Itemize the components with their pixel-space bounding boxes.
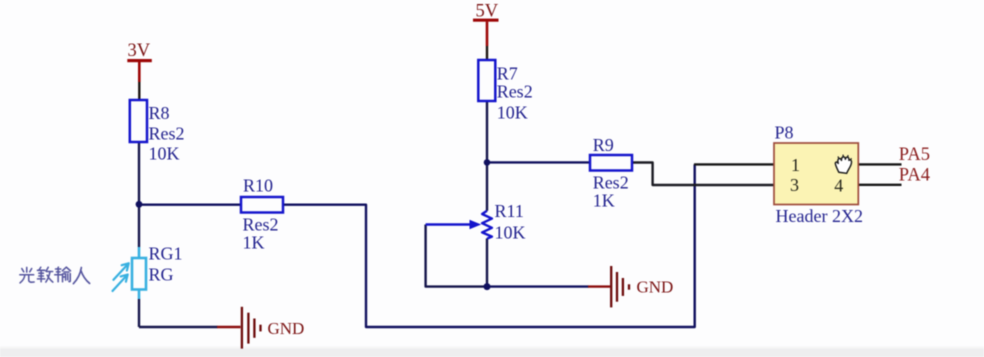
svg-text:1K: 1K	[593, 191, 615, 211]
svg-text:Res2: Res2	[497, 82, 533, 102]
svg-text:4: 4	[834, 176, 843, 196]
svg-text:P8: P8	[775, 123, 794, 143]
svg-text:R9: R9	[593, 135, 614, 155]
svg-text:R7: R7	[497, 64, 518, 84]
svg-text:RG: RG	[149, 265, 174, 285]
svg-text:R11: R11	[495, 201, 524, 221]
svg-text:10K: 10K	[495, 223, 526, 243]
svg-text:10K: 10K	[149, 144, 180, 164]
svg-text:1: 1	[791, 155, 800, 175]
svg-text:RG1: RG1	[149, 244, 183, 264]
svg-text:3: 3	[790, 175, 799, 195]
svg-text:3V: 3V	[128, 41, 151, 61]
svg-text:GND: GND	[637, 278, 674, 297]
svg-text:Header 2X2: Header 2X2	[776, 206, 863, 226]
svg-text:GND: GND	[268, 319, 305, 338]
svg-text:Res2: Res2	[593, 173, 629, 193]
svg-text:1K: 1K	[243, 233, 265, 253]
svg-text:R10: R10	[243, 176, 273, 196]
svg-text:PA5: PA5	[899, 145, 930, 165]
svg-text:R8: R8	[149, 103, 170, 123]
svg-text:5V: 5V	[476, 2, 499, 22]
svg-text:Res2: Res2	[243, 215, 279, 235]
svg-text:Res2: Res2	[149, 124, 185, 144]
svg-text:PA4: PA4	[899, 166, 930, 186]
svg-text:10K: 10K	[497, 103, 528, 123]
